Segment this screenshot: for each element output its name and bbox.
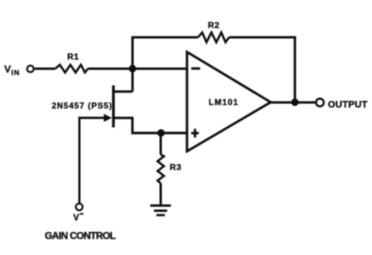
svg-text:V: V <box>4 64 11 75</box>
wire op-amp output <box>270 101 316 103</box>
label V- <box>73 213 83 223</box>
ground <box>150 206 171 216</box>
op-amp minus sign <box>191 67 200 69</box>
junction node output <box>291 99 298 106</box>
wire VIN terminal to R1 <box>35 67 56 69</box>
svg-text:LM101: LM101 <box>209 97 239 107</box>
wire feedback top left segment <box>131 36 198 38</box>
wire node to op-amp inverting input <box>131 67 188 69</box>
output terminal <box>316 99 324 107</box>
wire R1 to inverting-input node <box>88 67 134 69</box>
resistor R2 <box>198 33 229 43</box>
gain control terminal V- <box>76 204 83 211</box>
wire feedback right vertical down to output node <box>294 36 296 103</box>
svg-text:R3: R3 <box>170 162 182 172</box>
svg-text:V: V <box>73 213 79 223</box>
junction node B (non-inverting input node) <box>157 129 164 136</box>
svg-text:GAIN CONTROL: GAIN CONTROL <box>45 231 116 242</box>
transistor Q1 gate wire <box>79 117 105 119</box>
resistor R3 <box>158 155 164 184</box>
svg-text:2N5457 (PS5): 2N5457 (PS5) <box>52 101 113 110</box>
input terminal VIN <box>27 66 34 73</box>
wire feedback top right segment <box>229 36 296 38</box>
svg-text:R2: R2 <box>208 20 220 30</box>
junction node A (summing node) <box>129 65 136 72</box>
wire feedback left vertical (node A up to R2 loop, down to JFET drain) <box>131 37 133 91</box>
svg-text:OUTPUT: OUTPUT <box>328 99 368 110</box>
transistor Q1 gate arrow <box>104 114 112 122</box>
op-amp plus sign <box>191 129 199 138</box>
wire R3 to ground <box>159 183 161 205</box>
transistor Q1 2N5457 channel bar <box>112 85 115 127</box>
wire gate down to gain control terminal <box>78 117 80 203</box>
transistor Q1 drain lead (to node A vertical) <box>112 90 132 92</box>
resistor R1 <box>55 65 88 73</box>
op-amp U1 triangle <box>187 52 271 151</box>
svg-text:R1: R1 <box>67 52 79 62</box>
svg-text:IN: IN <box>11 68 20 77</box>
wire node B down to R3 <box>159 133 161 155</box>
label VIN <box>4 64 20 77</box>
transistor Q1 source lead to non-inverting node <box>113 118 188 133</box>
